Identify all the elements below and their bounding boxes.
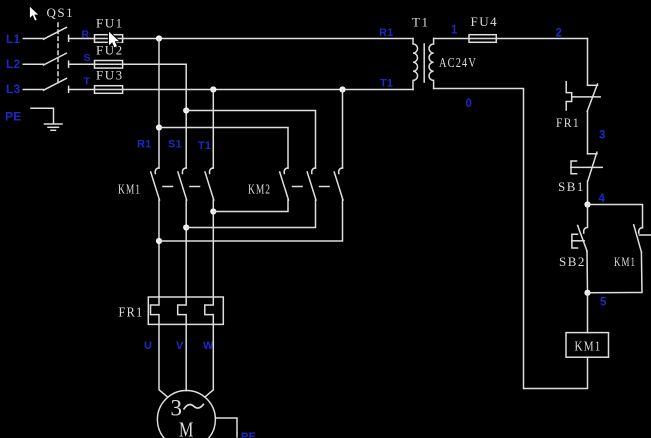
fuse FU3 xyxy=(95,86,123,94)
switch QS1 linkage dashed xyxy=(57,23,59,84)
contactor KM1 pole 3 xyxy=(209,168,213,174)
svg-text:R1: R1 xyxy=(379,27,393,39)
wire L3 stub xyxy=(23,89,43,91)
wire KM1 aux bottom xyxy=(588,252,643,293)
motor M circle xyxy=(157,391,215,438)
wire control drop xyxy=(587,39,589,86)
wire bridge KM1p1 to KM2p3 xyxy=(159,200,343,241)
svg-text:PE: PE xyxy=(5,110,21,124)
contactor KM2 pole 3 xyxy=(339,168,343,174)
svg-text:L2: L2 xyxy=(6,57,21,71)
switch QS1 pole 1 fixed contact xyxy=(68,35,70,41)
svg-text:FU3: FU3 xyxy=(96,68,124,83)
switch QS1 pole 1 blade xyxy=(44,27,67,39)
svg-text:FU1: FU1 xyxy=(96,16,124,31)
wire KM1 pole2 bottom xyxy=(185,200,187,297)
switch QS1 pole 3 fixed contact xyxy=(68,86,70,92)
wire KM1 pole3 bottom xyxy=(212,200,214,297)
node 5 junction xyxy=(584,290,590,296)
svg-text:1: 1 xyxy=(451,25,458,37)
wire bridge KM1p3 to KM2p1 xyxy=(213,200,288,212)
fuse FU1 xyxy=(95,35,123,43)
svg-text:S1: S1 xyxy=(168,139,182,151)
contact FR1 NC xyxy=(588,84,598,86)
svg-text:KM1: KM1 xyxy=(614,254,636,269)
svg-text:T1: T1 xyxy=(380,78,393,90)
pushbutton SB1 NC xyxy=(588,153,597,155)
contactor KM2 pole 1 xyxy=(284,168,288,174)
node bridge U xyxy=(156,238,162,244)
wire FR1 to SB1 xyxy=(587,111,589,154)
svg-text:W: W xyxy=(203,340,214,352)
contactor KM1 pole 1 xyxy=(155,168,159,174)
wire U to motor xyxy=(159,324,167,396)
wire R drop to KM1 pole1 xyxy=(158,39,160,169)
svg-text:R: R xyxy=(82,28,90,40)
wire W to motor xyxy=(206,324,214,396)
switch QS1 pole 3 blade xyxy=(44,78,67,90)
thermal element FR1 xyxy=(566,82,572,110)
svg-text:FR1: FR1 xyxy=(119,306,144,321)
svg-text:5: 5 xyxy=(600,297,607,309)
svg-text:L3: L3 xyxy=(6,82,21,96)
wire QS1 to FU3 xyxy=(69,89,123,91)
cursor arrow top-left xyxy=(29,6,39,22)
wire QS1 to FU2 xyxy=(69,63,123,65)
wire R phase FU1 to transformer xyxy=(123,38,413,40)
wire node5 to coil xyxy=(587,293,589,333)
contactor KM2 pole 2 xyxy=(312,168,316,174)
wire T drop to KM2 pole3 xyxy=(342,90,344,169)
thermal relay FR1 heater W xyxy=(205,297,214,324)
wire node4 to KM1 aux xyxy=(588,205,643,228)
wire T drop to KM1 pole3 xyxy=(212,90,214,169)
wire S phase FU2 to corner xyxy=(123,64,187,168)
switch QS1 pole 2 fixed contact xyxy=(68,61,70,67)
thermal relay FR1 heater U xyxy=(151,297,160,324)
thermal relay FR1 heater V xyxy=(178,297,187,324)
wire bridge KM1p2 to KM2p2 xyxy=(186,200,315,228)
svg-text:V: V xyxy=(176,340,184,352)
svg-text:T1: T1 xyxy=(412,15,429,30)
contactor KM2 linkage dashes xyxy=(293,186,303,188)
wire PE stub xyxy=(31,108,54,123)
svg-text:T: T xyxy=(84,76,91,88)
contactor KM1 pole 2 xyxy=(182,168,186,174)
fuse FU2 xyxy=(95,61,123,69)
wire SB2 bottom xyxy=(586,251,589,293)
svg-text:SB1: SB1 xyxy=(558,179,585,194)
svg-text:3: 3 xyxy=(599,130,606,142)
svg-text:2: 2 xyxy=(556,28,563,40)
wire R branch to KM2 pole1 xyxy=(159,128,288,169)
wire KM1 pole1 bottom xyxy=(158,200,160,297)
transformer T1 secondary xyxy=(429,39,434,89)
wire V to motor xyxy=(185,324,187,390)
node bridge V xyxy=(183,224,189,230)
node R branch xyxy=(156,124,162,130)
contact KM1 aux NO xyxy=(639,228,643,234)
svg-text:KM1: KM1 xyxy=(118,183,141,198)
svg-text:FR1: FR1 xyxy=(556,115,580,130)
svg-text:T1: T1 xyxy=(198,140,211,152)
node T junction KM1 xyxy=(210,86,216,92)
node R junction xyxy=(156,35,162,41)
wire T phase FU3 to transformer xyxy=(123,89,413,91)
svg-text:0: 0 xyxy=(466,98,473,110)
svg-text:QS1: QS1 xyxy=(47,5,75,20)
pushbutton SB2 NO xyxy=(584,205,588,234)
svg-text:KM2: KM2 xyxy=(248,183,271,198)
wire S branch to KM2 pole2 xyxy=(186,111,315,169)
wire secondary top to control xyxy=(434,38,588,40)
node S branch xyxy=(183,107,189,113)
wire L1 stub xyxy=(23,38,43,40)
fuse FU4 xyxy=(469,35,496,43)
svg-text:R1: R1 xyxy=(137,139,151,151)
wire secondary bottom 0 xyxy=(434,89,588,389)
wire QS1 to FU1 xyxy=(69,38,123,40)
svg-text:FU4: FU4 xyxy=(471,14,499,29)
coil KM1 xyxy=(566,333,609,358)
switch QS1 pole 2 blade xyxy=(44,53,67,65)
svg-text:M: M xyxy=(179,417,195,438)
wire L2 stub xyxy=(23,63,43,65)
svg-text:SB2: SB2 xyxy=(559,254,586,269)
contactor KM1 linkage dashes xyxy=(163,186,173,188)
svg-text:L1: L1 xyxy=(6,32,21,46)
wire SB1 to node4 xyxy=(587,181,589,205)
transformer T1 primary xyxy=(413,39,418,90)
node bridge W xyxy=(210,208,216,214)
ground xyxy=(45,123,63,125)
thermal relay FR1 box xyxy=(148,297,223,324)
wire motor PE tap xyxy=(215,418,237,437)
svg-text:PE: PE xyxy=(241,431,256,438)
svg-text:AC24V: AC24V xyxy=(439,55,477,70)
svg-text:S: S xyxy=(84,52,91,64)
cursor arrow over FU1 xyxy=(109,32,119,48)
svg-text:U: U xyxy=(144,340,152,352)
svg-text:KM1: KM1 xyxy=(575,340,602,355)
svg-text:4: 4 xyxy=(599,193,606,205)
transformer T1 core xyxy=(423,44,425,82)
node T junction KM2 xyxy=(339,86,345,92)
node 4 junction xyxy=(584,201,590,207)
